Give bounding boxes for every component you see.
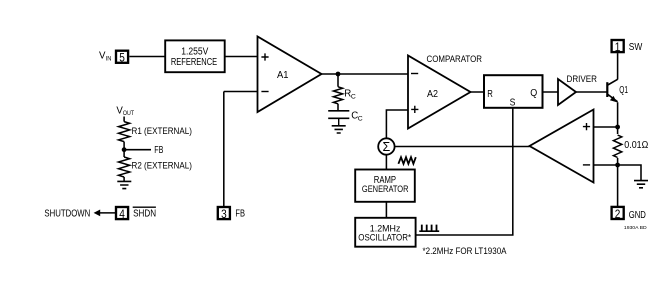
svg-text:2: 2	[615, 207, 621, 221]
svg-text:R2 (EXTERNAL): R2 (EXTERNAL)	[132, 160, 192, 171]
svg-text:IN: IN	[106, 55, 112, 62]
svg-text:Q: Q	[530, 87, 537, 99]
svg-text:R1 (EXTERNAL): R1 (EXTERNAL)	[132, 126, 192, 137]
svg-text:C: C	[351, 93, 356, 100]
svg-text:GND: GND	[629, 210, 646, 221]
svg-text:GENERATOR: GENERATOR	[362, 184, 409, 195]
svg-text:3: 3	[221, 207, 227, 221]
svg-text:REFERENCE: REFERENCE	[171, 57, 218, 68]
svg-text:4: 4	[119, 207, 125, 221]
svg-text:A1: A1	[277, 69, 289, 81]
svg-text:R: R	[487, 88, 493, 100]
svg-text:SHDN: SHDN	[133, 209, 156, 220]
svg-text:FB: FB	[235, 209, 245, 220]
svg-text:1: 1	[615, 40, 621, 54]
svg-text:1930A BD: 1930A BD	[624, 225, 648, 230]
svg-text:FB: FB	[154, 145, 163, 156]
svg-text:0.01Ω: 0.01Ω	[624, 140, 648, 151]
svg-text:DRIVER: DRIVER	[567, 74, 598, 84]
svg-text:C: C	[358, 115, 363, 122]
svg-text:COMPARATOR: COMPARATOR	[427, 54, 483, 64]
svg-text:1.255V: 1.255V	[181, 47, 208, 58]
svg-text:SHUTDOWN: SHUTDOWN	[44, 209, 90, 220]
svg-text:5: 5	[119, 51, 125, 65]
svg-text:OUT: OUT	[123, 110, 134, 117]
svg-text:A2: A2	[427, 88, 438, 100]
svg-text:Σ: Σ	[383, 140, 391, 154]
svg-text:OSCILLATOR*: OSCILLATOR*	[358, 232, 411, 242]
svg-text:SW: SW	[629, 42, 643, 53]
svg-text:S: S	[510, 97, 516, 109]
svg-text:Q1: Q1	[619, 85, 628, 96]
svg-text:*2.2MHz FOR LT1930A: *2.2MHz FOR LT1930A	[423, 246, 507, 256]
